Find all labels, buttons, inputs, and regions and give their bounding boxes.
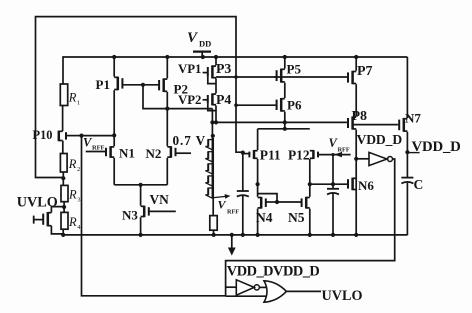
label P12 xyxy=(288,148,310,163)
capacitor C1 on P11 gate xyxy=(237,191,249,197)
label P2 xyxy=(174,82,188,97)
svg-text:N3: N3 xyxy=(122,208,138,223)
power VDD label xyxy=(187,30,211,49)
terminal VDD_D output tick xyxy=(407,152,419,154)
wire P11 source up xyxy=(257,129,259,150)
label N7 xyxy=(405,111,421,126)
node feedback line crossing P6 rail xyxy=(234,103,238,107)
transistor P2 xyxy=(143,78,167,92)
label R3 xyxy=(68,188,80,204)
svg-text:VDD_D: VDD_D xyxy=(357,132,403,147)
node P7 source on rail xyxy=(354,55,358,59)
svg-text:P12: P12 xyxy=(288,148,310,163)
svg-text:R: R xyxy=(68,91,77,105)
resistor Rref xyxy=(210,216,217,231)
node feedback tap at R2 R3 junction xyxy=(61,176,65,180)
transistor N4 xyxy=(258,197,277,209)
node ground arrow junction xyxy=(230,233,234,237)
node N3 source on rail xyxy=(139,233,143,237)
transistor N5 xyxy=(277,197,310,209)
wire link down to diode ladder xyxy=(211,109,213,139)
node VRFF row junction xyxy=(331,182,335,186)
node P11 gate / feedback junction xyxy=(241,151,245,155)
node capacitor C2 on rail xyxy=(331,233,335,237)
wire rail to P3 xyxy=(215,57,217,65)
transistor N1 xyxy=(86,146,115,158)
wire P8 drain to N7 gate xyxy=(352,124,397,126)
label 0.7V at N2 gate xyxy=(173,133,207,148)
node P3 source on rail xyxy=(214,55,218,59)
label P6 xyxy=(287,98,302,113)
wire P7 to P8 xyxy=(355,84,357,116)
wire N1 drain to P10 gate xyxy=(82,135,115,137)
node VDD stem junction xyxy=(201,55,205,59)
svg-text:R: R xyxy=(68,157,77,171)
label UVLO output xyxy=(322,288,363,304)
node P2 drain diode junction xyxy=(165,107,169,111)
svg-text:RFF: RFF xyxy=(92,144,105,151)
label VN xyxy=(150,192,170,207)
wire VDD rail xyxy=(63,56,407,58)
wire rail to P1 xyxy=(113,57,115,77)
svg-text:V: V xyxy=(187,30,199,46)
wire tail join xyxy=(114,184,167,186)
wire feedback tap down to bottom logic xyxy=(82,136,226,296)
node P6 drain on mid rail xyxy=(283,120,287,124)
wire feedback loop from divider tap up over the top to P11 gate node xyxy=(36,17,243,178)
wire R2 to R3 xyxy=(62,172,64,185)
svg-text:VDD_D: VDD_D xyxy=(412,139,461,155)
node P2 source on rail xyxy=(165,55,169,59)
wire P11 drain down xyxy=(257,159,259,197)
transistor P6 xyxy=(276,98,285,112)
wire VDD rail right drop to N7 drain xyxy=(406,57,408,118)
node inverter input tap xyxy=(354,157,358,161)
node P10 gate feedback tap xyxy=(79,134,83,138)
inverter U2 xyxy=(236,280,259,295)
wire rail corner down to R1 xyxy=(62,56,64,84)
transistor N3 xyxy=(141,206,176,218)
label VP2 xyxy=(178,93,201,107)
label R2 xyxy=(68,157,80,173)
wire P6 gate rail xyxy=(236,104,276,106)
svg-text:RFF: RFF xyxy=(338,146,350,153)
wire capacitor C to ground rail xyxy=(406,183,408,236)
wire P12 drain down xyxy=(309,159,311,197)
svg-text:N6: N6 xyxy=(358,178,374,193)
node P1 source on rail xyxy=(112,55,116,59)
resistor R2 xyxy=(60,154,67,173)
svg-text:P6: P6 xyxy=(287,98,302,113)
wire P4 drain to mid rail xyxy=(215,105,217,122)
transistor P11 xyxy=(243,150,258,159)
wire switch drain to R3-R4 tap xyxy=(51,207,64,213)
svg-text:N7: N7 xyxy=(405,111,421,126)
node N4 source on rail xyxy=(256,233,260,237)
svg-text:P7: P7 xyxy=(357,64,373,79)
resistor R4 xyxy=(61,212,68,229)
wire logic input stub xyxy=(226,286,237,288)
inverter U1 xyxy=(369,152,393,165)
svg-text:P3: P3 xyxy=(216,61,231,76)
node P5 source on rail xyxy=(283,55,287,59)
label P4 xyxy=(216,92,231,107)
wire source row P11 P12 xyxy=(258,128,310,130)
node P4 drain on mid rail xyxy=(214,120,218,124)
wire OR gate output xyxy=(286,290,321,292)
transistor P5 xyxy=(274,69,285,83)
diode ladder Q stack xyxy=(205,138,212,199)
wire ground rail xyxy=(63,234,407,236)
wire N4 source to ground xyxy=(257,209,259,236)
label P3 xyxy=(216,61,231,76)
node P11 drain xyxy=(256,182,260,186)
label VP1 xyxy=(178,62,201,76)
wire inverter U2 to OR gate xyxy=(259,286,267,288)
node mid-rail corner xyxy=(210,120,214,124)
label VDD_D internal xyxy=(357,132,403,147)
node ladder top xyxy=(211,134,215,138)
svg-text:C: C xyxy=(414,177,424,192)
wire P11 gate node down xyxy=(242,153,244,191)
wire rail to P2 xyxy=(166,57,168,78)
label VRFF tap arrow xyxy=(214,194,239,216)
capacitor C2 on VRFF xyxy=(327,189,339,195)
label R1 xyxy=(68,91,80,107)
transistor P4 xyxy=(203,93,216,105)
svg-text:P10: P10 xyxy=(33,128,53,142)
wire tap to inverter xyxy=(356,158,369,160)
svg-text:VP2: VP2 xyxy=(178,93,201,107)
svg-text:UVLO: UVLO xyxy=(322,288,363,304)
node R3-R4 tap xyxy=(62,205,66,209)
wire feedback to OR gate lower input xyxy=(226,295,268,297)
label VRFF at N1 gate xyxy=(83,135,105,151)
svg-text:1: 1 xyxy=(77,100,80,107)
node feedback line crossing VP1 rail xyxy=(234,75,238,79)
label UVLO input xyxy=(17,195,58,211)
label VRFF at P12 gate xyxy=(329,136,350,157)
node R4 bottom xyxy=(61,233,65,237)
label P11 xyxy=(260,148,281,163)
terminal UVLO input tick xyxy=(33,216,35,224)
transistor P1 xyxy=(114,77,143,91)
svg-text:VN: VN xyxy=(150,192,170,207)
wire P6 drain to mid rail and source row xyxy=(284,112,286,129)
wire P1 drain down to N1 xyxy=(113,90,115,146)
svg-text:P4: P4 xyxy=(216,92,231,107)
transistor P8 xyxy=(346,116,356,129)
wire R3 to R4 with tap xyxy=(63,202,65,213)
wire VP1 bias rail to P5 P7 gates xyxy=(216,76,346,78)
svg-text:3: 3 xyxy=(77,197,80,204)
resistor R3 xyxy=(61,185,68,201)
transistor P10 xyxy=(59,131,82,142)
wire N5 source to ground xyxy=(309,209,311,236)
wire P3 to P4 xyxy=(215,78,217,93)
svg-text:V: V xyxy=(218,198,227,212)
label N6 xyxy=(358,178,374,193)
svg-text:R: R xyxy=(68,215,77,229)
svg-text:2: 2 xyxy=(77,166,80,173)
label P1 xyxy=(96,77,110,92)
wire N2 source down xyxy=(166,158,168,185)
wire inverter output down and across xyxy=(226,159,395,296)
svg-text:N4: N4 xyxy=(256,210,273,225)
wire N1 source down xyxy=(113,158,115,185)
wire N4 diode link xyxy=(258,194,277,202)
node source row stub xyxy=(283,127,287,131)
wire P10 to R2 xyxy=(62,141,64,154)
label P8 xyxy=(352,109,368,124)
wire P5 to P6 xyxy=(284,83,286,98)
wire P4 diode loop xyxy=(208,104,216,111)
node ladder resistor on rail xyxy=(212,233,216,237)
label VDD_D VDD_D at logic xyxy=(227,264,320,280)
transistor N2 xyxy=(167,146,191,158)
node VRFF gate junction xyxy=(331,153,334,156)
label VDD_D output xyxy=(412,139,461,155)
svg-text:N5: N5 xyxy=(288,210,305,225)
wire P8 drain down VDD_D node xyxy=(355,130,357,236)
svg-text:R: R xyxy=(68,188,77,202)
svg-text:DD: DD xyxy=(199,39,211,49)
node N4 N5 gate tie xyxy=(275,200,279,204)
node P12 drain xyxy=(308,182,312,186)
svg-text:4: 4 xyxy=(77,224,81,231)
wire rail to P7 xyxy=(355,57,357,71)
wire resistor to ground xyxy=(213,230,215,235)
label C xyxy=(414,177,424,192)
wire gate tie down to P2 drain link xyxy=(143,85,212,109)
label N3 xyxy=(122,208,138,223)
label N2 xyxy=(146,146,162,161)
wire R1 to P10 xyxy=(62,106,64,132)
wire tail to N3 xyxy=(140,185,142,206)
ground arrow symbol xyxy=(228,235,236,256)
wire N7 source down to VDD_D output xyxy=(406,132,408,178)
resistor R1 xyxy=(60,84,67,106)
svg-text:P8: P8 xyxy=(352,109,368,124)
power VDD terminal bar xyxy=(193,52,211,57)
wire rail to P5 xyxy=(284,57,286,69)
svg-text:N2: N2 xyxy=(146,146,162,161)
label P5 xyxy=(287,62,302,77)
wire ladder to resistor xyxy=(212,199,214,216)
transistor UVLO switch xyxy=(34,212,52,226)
label N4 xyxy=(256,210,273,225)
wire mid rail to P8 gate xyxy=(212,121,346,123)
node tail junction xyxy=(139,183,143,187)
svg-text:N1: N1 xyxy=(119,146,135,161)
wire capacitor C1 to ground xyxy=(242,196,244,235)
transistor P7 xyxy=(346,71,356,84)
label P10 xyxy=(33,128,53,142)
node N6 source on rail xyxy=(354,233,358,237)
svg-text:P11: P11 xyxy=(260,148,281,163)
wire P3 diode loop xyxy=(208,77,216,84)
wire VRFF node down to N6 gate row xyxy=(332,155,334,189)
transistor P12 xyxy=(310,150,351,159)
svg-text:0.7 V: 0.7 V xyxy=(173,133,207,148)
wire switch source to R4 bottom xyxy=(51,226,63,234)
label P7 xyxy=(357,64,373,79)
wire P12 drain to N6 gate xyxy=(310,183,346,185)
svg-text:RFF: RFF xyxy=(227,209,239,216)
wire P2 drain down to N2 xyxy=(166,92,168,146)
transistor N6 xyxy=(346,178,356,191)
svg-text:VDD_DVDD_D: VDD_DVDD_D xyxy=(227,264,320,280)
node N5 source on rail xyxy=(308,233,312,237)
node VDD_D output xyxy=(405,150,409,154)
label N5 xyxy=(288,210,305,225)
svg-text:VP1: VP1 xyxy=(178,62,201,76)
wire R4 to ground rail xyxy=(62,229,64,235)
capacitor C xyxy=(401,178,413,184)
node capacitor C1 on rail xyxy=(241,233,245,237)
node P1 P2 gate tie xyxy=(141,83,145,87)
svg-text:P5: P5 xyxy=(287,62,302,77)
transistor N7 xyxy=(397,118,407,132)
label N1 xyxy=(119,146,135,161)
or-gate U3 xyxy=(264,281,286,302)
wire capacitor C2 to ground xyxy=(332,194,334,236)
node P1 drain / N1 drain / gate sense xyxy=(112,133,116,137)
wire N3 source to ground xyxy=(140,217,142,235)
label R4 xyxy=(68,215,81,231)
svg-text:P1: P1 xyxy=(96,77,110,92)
transistor P3 xyxy=(203,65,216,78)
